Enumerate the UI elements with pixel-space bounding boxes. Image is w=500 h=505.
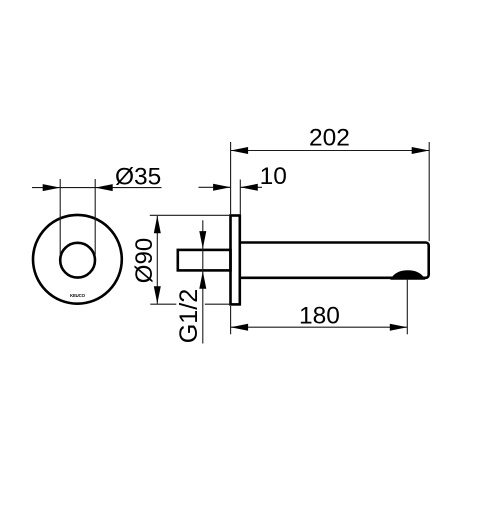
dim 10 extension line right <box>239 180 241 215</box>
dim Ø90 top extension line <box>150 214 230 216</box>
dim 180 dimension line <box>231 326 408 328</box>
dim G1/2 bottom arrowhead (points up, tip at nipple bottom) <box>199 271 206 289</box>
svg-text:Ø35: Ø35 <box>115 163 161 190</box>
side view spout body <box>241 243 429 278</box>
svg-text:KEUCO: KEUCO <box>70 293 86 298</box>
dim 180 arrow left (tip pointing left) <box>231 324 249 331</box>
dim 10 right tail line <box>240 186 262 188</box>
svg-text:180: 180 <box>299 302 340 329</box>
dim 202 dimension line <box>231 150 430 152</box>
dim Ø35 extension line right <box>94 179 96 255</box>
dim Ø35 arrow right (points left at tip x=95.2) <box>95 184 113 191</box>
front view inner circle (spout tube Ø35) <box>60 243 95 278</box>
dim Ø90 bottom extension line segment a <box>150 303 176 305</box>
svg-text:202: 202 <box>309 125 350 152</box>
svg-text:Ø90: Ø90 <box>131 238 158 283</box>
dim 202 extension line right <box>428 142 430 241</box>
dim 202 arrow left (tip at left end pointing left) <box>231 147 249 154</box>
side view wall plate <box>231 216 240 305</box>
dim Ø90 dimension line <box>156 216 158 304</box>
dim Ø90 arrow top (points up) <box>154 216 161 234</box>
dim 10 arrow right (outside, points left, tip x=240.3) <box>240 184 257 191</box>
dim 10 left tail line <box>199 186 231 188</box>
side view G1/2 nipple <box>178 250 231 271</box>
spout outlet bump (aerator) <box>392 271 425 279</box>
dim Ø35 dimension line <box>32 187 162 189</box>
dim G1/2 dimension line (passes through nipple) <box>202 220 204 343</box>
dim Ø35 arrow left (points right at tip x=60.2) <box>43 184 61 191</box>
dim 202 extension line left <box>230 142 232 214</box>
dim Ø90 bottom extension line segment b <box>205 303 230 305</box>
dim Ø90 arrow bottom (points down) <box>154 286 161 304</box>
dim 202 arrow right (tip at right end pointing right) <box>412 147 430 154</box>
dim 10 arrow left (outside, points right, tip x=230.6) <box>213 184 231 191</box>
svg-text:10: 10 <box>260 163 287 190</box>
dim 180 extension line left <box>230 306 232 334</box>
front view outer circle (wall flange Ø90) <box>33 215 122 304</box>
dim 180 arrow right (tip pointing right) <box>390 324 408 331</box>
dim G1/2 top arrowhead (points down, tip at nipple top) <box>199 231 206 249</box>
dim Ø35 extension line left <box>59 179 61 255</box>
dim 180 extension line right <box>406 279 408 334</box>
svg-text:G1/2: G1/2 <box>175 289 203 344</box>
